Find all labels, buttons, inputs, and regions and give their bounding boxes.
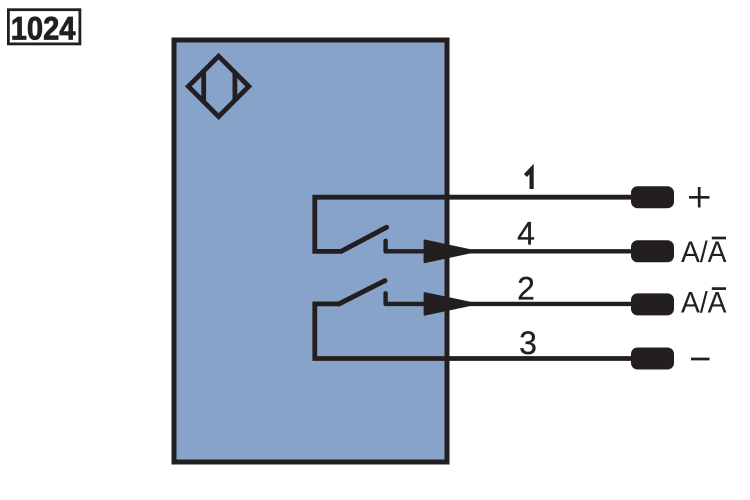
S1 pivot stub xyxy=(312,249,341,254)
arrow on wire 2 xyxy=(425,293,476,315)
wire 3 (0V) from switch S2 bottom rail to terminal 3 xyxy=(315,304,631,359)
svg-text:2: 2 xyxy=(517,271,535,307)
terminal 2 xyxy=(631,293,674,315)
S2 fixed contact tick xyxy=(383,293,387,304)
wire 1 (+V) from switch S1 top rail to terminal 1 xyxy=(315,197,631,251)
label A/A-bar (terminal 2) xyxy=(681,287,727,320)
terminal 4 xyxy=(631,240,674,262)
wire 4 (output A) to terminal 4 xyxy=(386,249,631,253)
S2 blade xyxy=(339,281,385,304)
svg-text:A/A: A/A xyxy=(681,236,727,269)
arrow on wire 4 xyxy=(425,241,476,263)
S1 blade xyxy=(341,227,387,251)
wire 2 (output A-bar) to terminal 2 xyxy=(386,302,631,306)
figure number box 1024 xyxy=(8,10,80,47)
terminal 1 xyxy=(631,186,674,208)
label - (terminal 3) xyxy=(691,358,710,361)
switch S1 (upper, output A) xyxy=(312,227,386,251)
S1 fixed contact tick xyxy=(383,241,387,252)
sensor body (blue box) xyxy=(174,40,447,462)
switch S2 (lower, output A-bar) xyxy=(312,281,385,304)
pin number 1 xyxy=(525,169,531,189)
terminal 3 xyxy=(631,348,674,370)
sensor symbol U1 (diamond) xyxy=(188,56,248,116)
svg-text:A/A: A/A xyxy=(681,287,727,320)
svg-text:1024: 1024 xyxy=(11,10,76,46)
S2 pivot stub xyxy=(312,301,339,306)
svg-text:3: 3 xyxy=(519,325,537,361)
label A/A-bar (terminal 4) xyxy=(681,236,727,269)
label + (terminal 1) xyxy=(689,187,710,208)
svg-text:4: 4 xyxy=(517,216,535,252)
